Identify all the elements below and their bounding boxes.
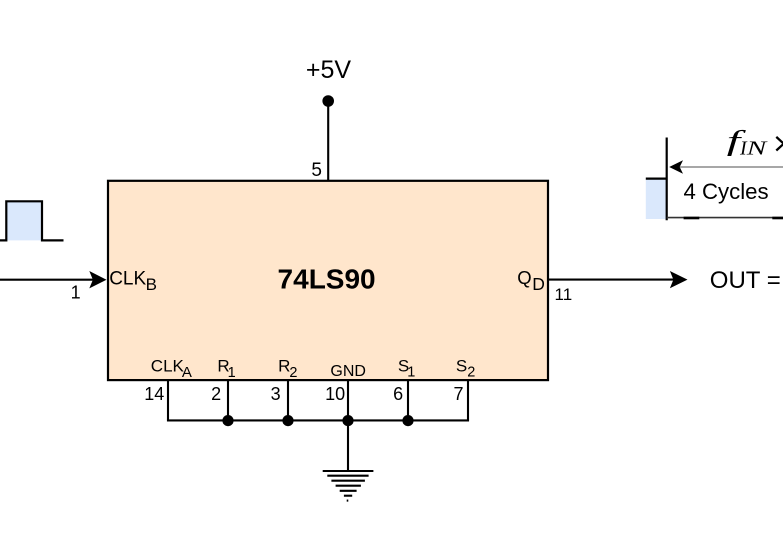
output waveform falling edge and extension line xyxy=(666,138,668,221)
svg-text:11: 11 xyxy=(555,285,573,304)
svg-text:6: 6 xyxy=(393,384,403,404)
svg-text:74LS90: 74LS90 xyxy=(278,264,376,295)
ground symbol xyxy=(323,471,374,501)
output waveform baseline low segment 2 xyxy=(772,217,783,220)
svg-text:1: 1 xyxy=(71,283,81,303)
svg-text:3: 3 xyxy=(271,384,281,404)
svg-text:GND: GND xyxy=(330,363,366,380)
svg-text:4 Cycles: 4 Cycles xyxy=(684,179,769,204)
junction dot pin 3 xyxy=(282,415,293,426)
wire pin 3 stub xyxy=(287,380,289,420)
svg-text:5: 5 xyxy=(311,160,322,181)
arrowhead QD output xyxy=(670,271,688,288)
wire VCC to pin 5 xyxy=(327,101,329,181)
svg-text:10: 10 xyxy=(325,384,345,404)
output waveform pulse fill xyxy=(646,179,667,219)
multiplication sign xyxy=(776,137,783,145)
wire pin 7 stub xyxy=(467,380,469,420)
output waveform baseline low segment 1 xyxy=(684,217,700,220)
wire ground bus xyxy=(167,419,469,421)
output waveform baseline thin xyxy=(667,217,783,219)
wire CLKB input xyxy=(0,279,93,281)
IC U1 74LS90 body xyxy=(108,181,548,380)
dimension line 4 cycles xyxy=(680,166,783,168)
junction dot pin 2 xyxy=(222,415,233,426)
junction dot pin 6 xyxy=(402,415,413,426)
wire to ground xyxy=(347,420,349,471)
node VCC terminal dot xyxy=(322,95,334,107)
wire QD output xyxy=(548,279,674,281)
wire pin 6 stub xyxy=(407,380,409,420)
wire pin 2 stub xyxy=(227,380,229,420)
svg-text:OUT =: OUT = xyxy=(710,267,781,294)
arrowhead into CLKB xyxy=(89,271,106,288)
svg-text:7: 7 xyxy=(453,384,463,404)
svg-text:N: N xyxy=(745,137,768,159)
clock waveform input pulse xyxy=(0,201,64,240)
arrowhead dimension xyxy=(669,160,683,174)
wire pin 10 stub xyxy=(347,380,349,420)
junction dot pin 10 xyxy=(342,415,353,426)
svg-text:14: 14 xyxy=(144,384,164,404)
wire pin 14 stub xyxy=(167,380,169,420)
svg-text:2: 2 xyxy=(211,384,221,404)
svg-text:+5V: +5V xyxy=(306,56,352,84)
output waveform pulse top edge xyxy=(646,178,667,180)
